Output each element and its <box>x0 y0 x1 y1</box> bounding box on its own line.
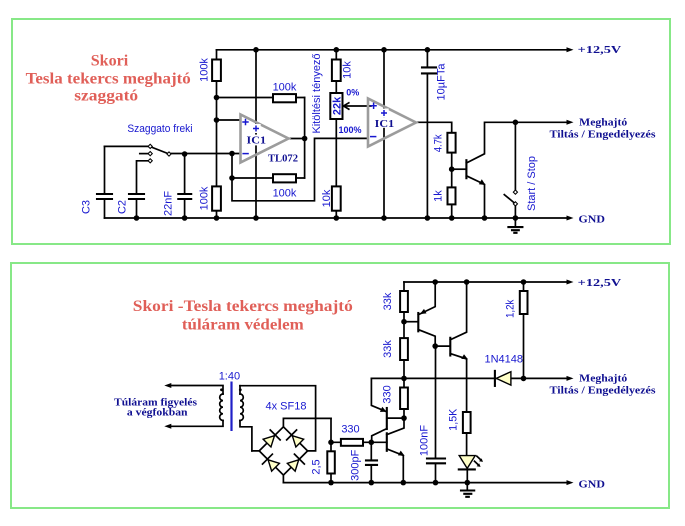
svg-text:Szaggato freki: Szaggato freki <box>127 123 192 135</box>
svg-text:100k: 100k <box>198 186 210 210</box>
svg-text:33k: 33k <box>382 292 394 310</box>
svg-text:IC1: IC1 <box>375 118 395 130</box>
svg-text:33k: 33k <box>382 340 394 358</box>
svg-text:2,5: 2,5 <box>311 459 323 474</box>
svg-text:22nF: 22nF <box>163 191 175 216</box>
svg-text:4.7k: 4.7k <box>433 134 445 152</box>
svg-text:+12,5V: +12,5V <box>578 44 622 56</box>
svg-text:Kitöltési tényező: Kitöltési tényező <box>311 53 323 133</box>
svg-text:IC1: IC1 <box>247 135 267 147</box>
svg-text:C3: C3 <box>81 200 93 214</box>
svg-text:GND: GND <box>579 213 605 225</box>
svg-text:Meghajtó: Meghajtó <box>579 116 628 128</box>
svg-text:1N4148: 1N4148 <box>485 354 524 366</box>
svg-text:10k: 10k <box>342 61 354 79</box>
svg-text:Skori: Skori <box>91 52 129 69</box>
svg-text:szaggató: szaggató <box>74 88 138 105</box>
svg-text:22k: 22k <box>332 96 344 115</box>
svg-text:Tiltás / Engedélyezés: Tiltás / Engedélyezés <box>550 128 657 140</box>
svg-text:Start / Stop: Start / Stop <box>526 156 538 211</box>
svg-text:100nF: 100nF <box>419 425 431 456</box>
svg-text:100k: 100k <box>273 188 297 200</box>
svg-text:100%: 100% <box>339 125 362 135</box>
svg-text:Meghajtó: Meghajtó <box>579 372 628 384</box>
svg-text:4x SF18: 4x SF18 <box>266 401 307 413</box>
svg-text:100k: 100k <box>198 58 210 82</box>
svg-text:+12,5V: +12,5V <box>578 277 622 289</box>
svg-text:1,2k: 1,2k <box>505 299 517 318</box>
svg-text:1,5K: 1,5K <box>448 408 460 431</box>
svg-text:Tiltás / Engedélyezés: Tiltás / Engedélyezés <box>550 385 657 397</box>
svg-text:TL072: TL072 <box>268 153 298 165</box>
svg-text:C2: C2 <box>117 200 129 214</box>
svg-text:a végfokban: a végfokban <box>127 407 188 419</box>
svg-text:10µFTa: 10µFTa <box>436 63 448 101</box>
svg-text:Tesla tekercs meghajtó: Tesla tekercs meghajtó <box>26 70 191 87</box>
svg-text:100k: 100k <box>273 82 297 94</box>
svg-text:300pF: 300pF <box>350 449 362 480</box>
svg-text:Skori -Tesla tekercs meghajtó: Skori -Tesla tekercs meghajtó <box>133 298 353 315</box>
svg-text:330: 330 <box>341 424 359 436</box>
svg-text:330: 330 <box>382 385 394 403</box>
svg-text:10k: 10k <box>321 189 333 207</box>
svg-text:túláram védelem: túláram védelem <box>182 316 305 333</box>
svg-text:0%: 0% <box>346 87 359 97</box>
svg-text:1:40: 1:40 <box>219 371 240 383</box>
svg-text:GND: GND <box>579 478 605 490</box>
svg-text:1k: 1k <box>433 190 445 202</box>
